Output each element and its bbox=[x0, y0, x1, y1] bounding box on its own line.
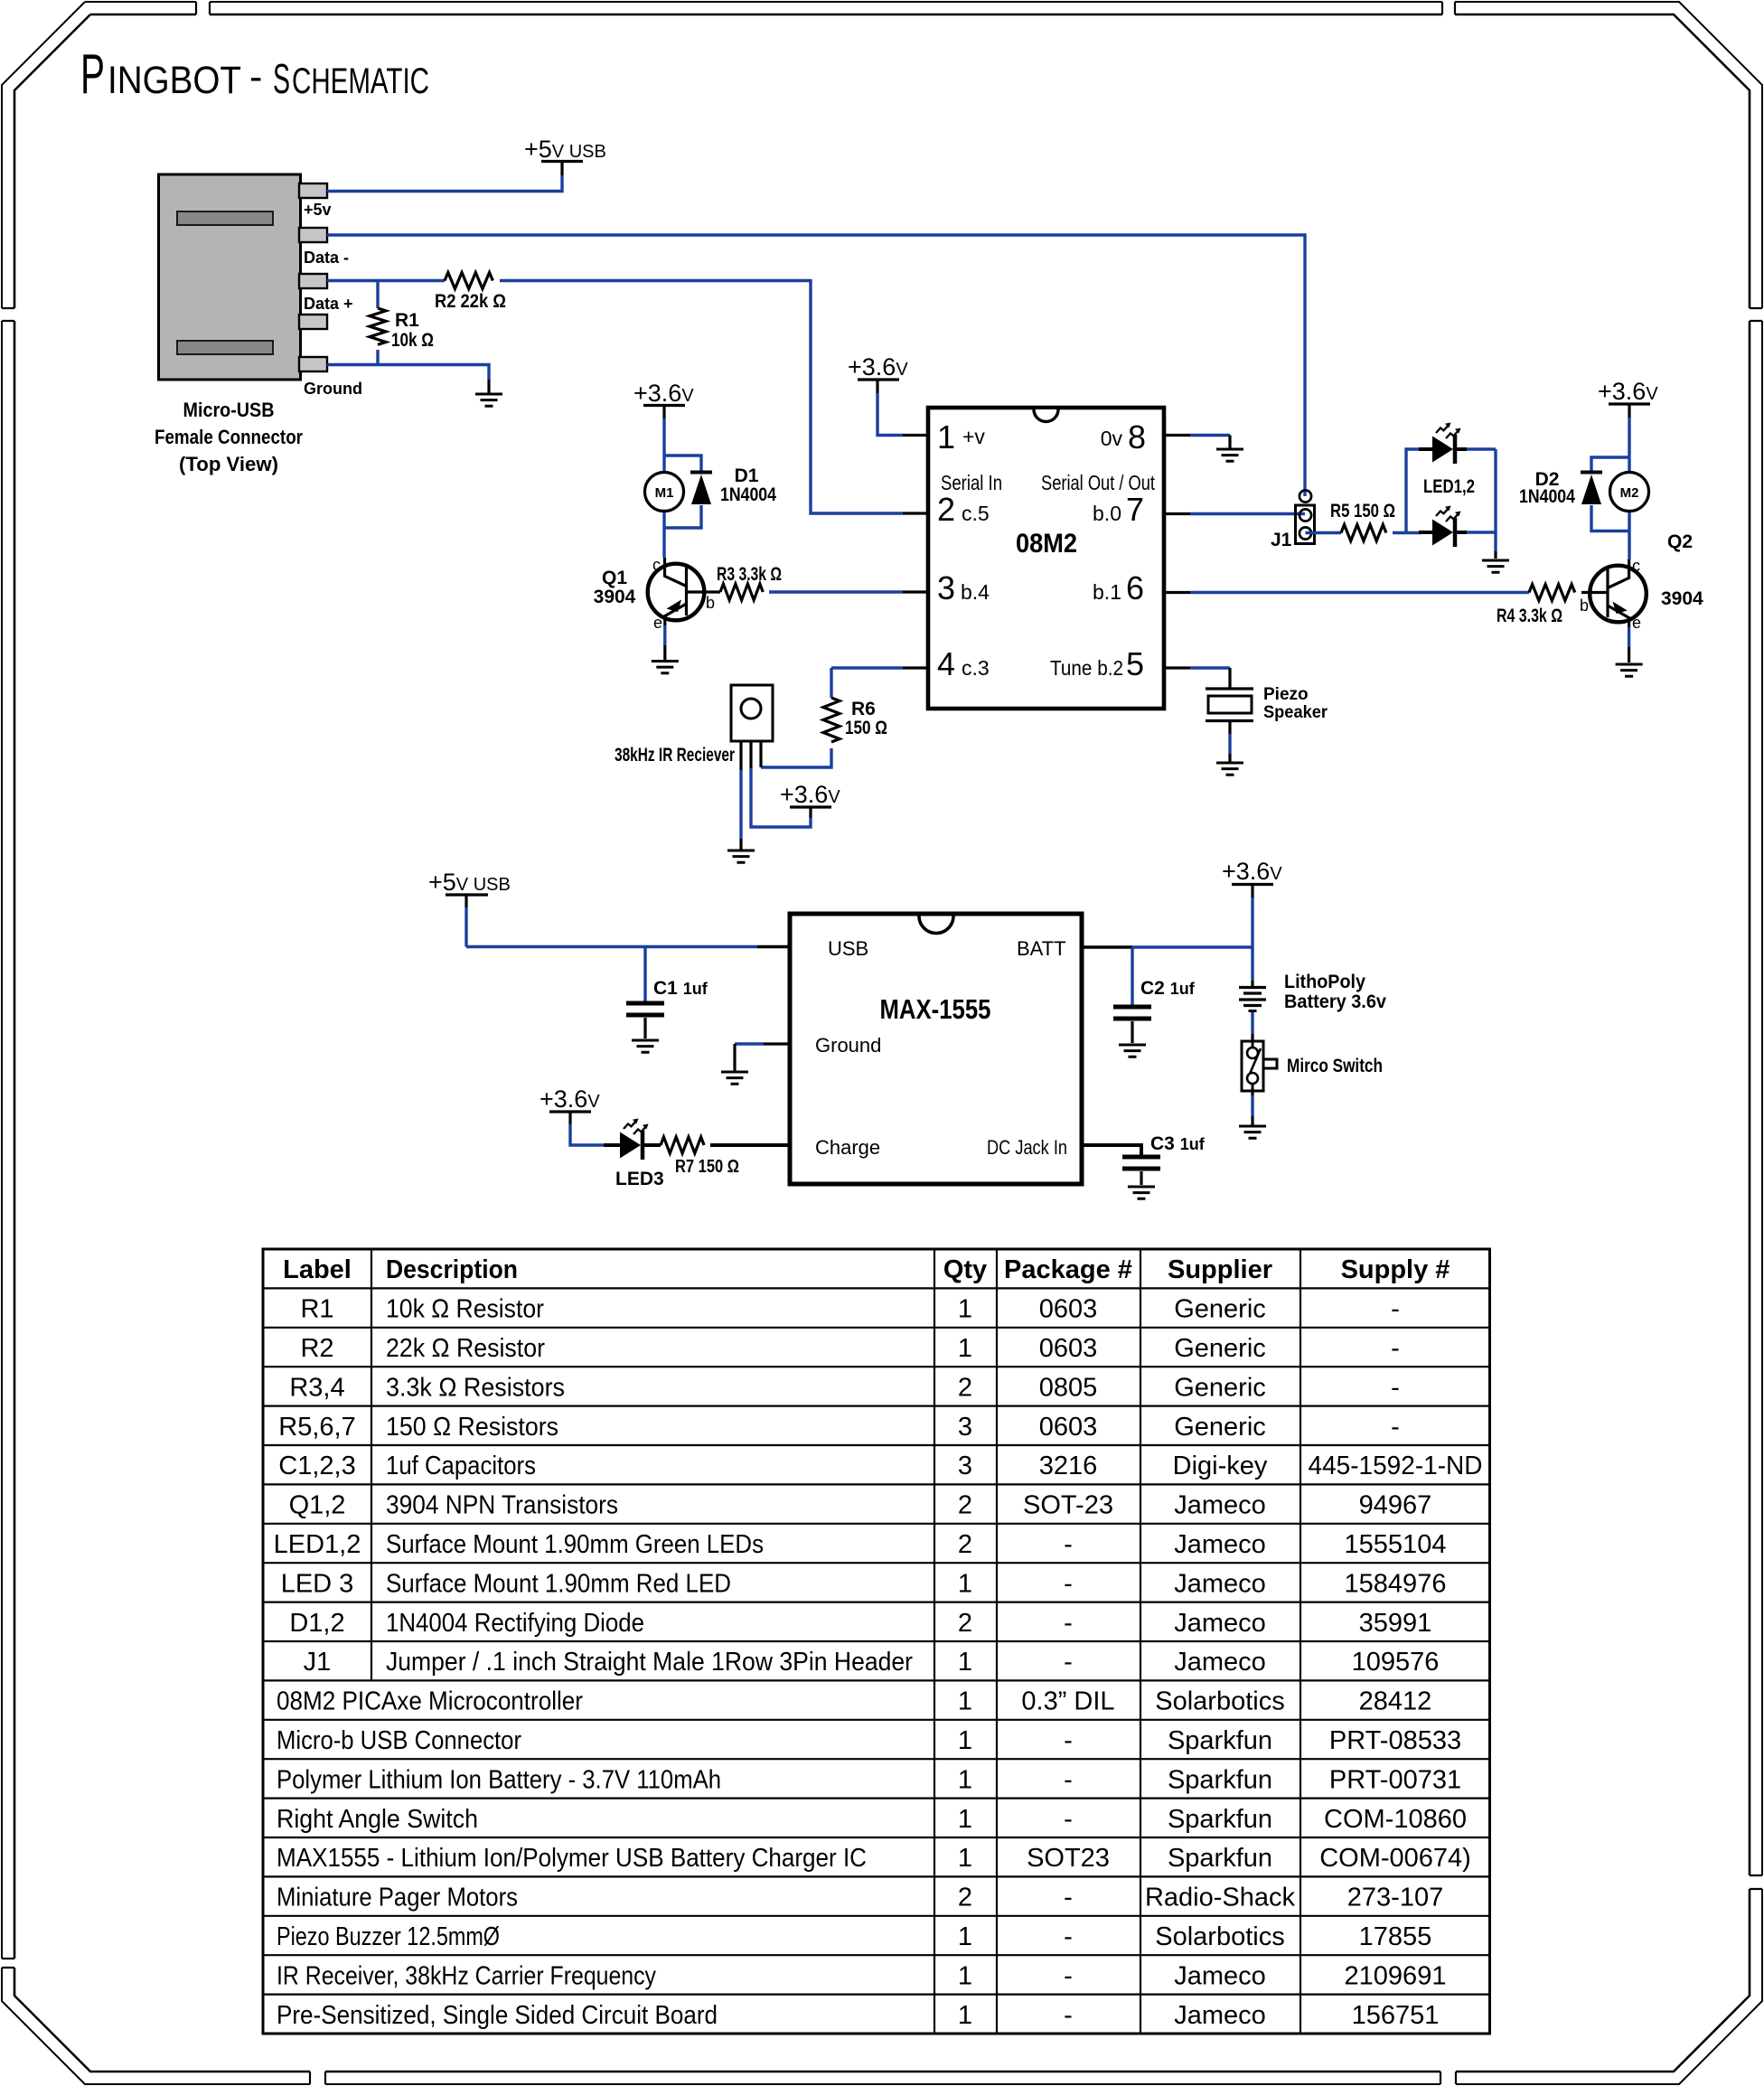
label Q2 3904 bbox=[1661, 531, 1703, 609]
svg-text:+3.6V: +3.6V bbox=[540, 1085, 600, 1113]
svg-text:b.1: b.1 bbox=[1093, 580, 1121, 604]
resistor R5 bbox=[1341, 525, 1386, 541]
svg-text:1N4004 Rectifying Diode: 1N4004 Rectifying Diode bbox=[386, 1609, 644, 1638]
label D2 1N4004 bbox=[1519, 469, 1575, 507]
svg-text:2: 2 bbox=[958, 1884, 972, 1912]
wire DC Jack In pin to C3 bbox=[1082, 1145, 1141, 1155]
svg-text:PRT-00731: PRT-00731 bbox=[1329, 1765, 1461, 1794]
wire R3 to pin3 bbox=[769, 590, 903, 593]
svg-text:150 Ω: 150 Ω bbox=[845, 718, 887, 738]
svg-text:Q1,2: Q1,2 bbox=[289, 1491, 346, 1520]
svg-text:R1: R1 bbox=[300, 1295, 333, 1324]
micro switch SW1 bbox=[1242, 1041, 1277, 1091]
resistor R3 bbox=[720, 584, 763, 600]
svg-text:2: 2 bbox=[958, 1609, 972, 1638]
wire IR leg3 bbox=[759, 741, 762, 767]
power +3.6V IR bbox=[780, 781, 840, 808]
svg-text:Miniature Pager Motors: Miniature Pager Motors bbox=[277, 1884, 518, 1912]
svg-text:R5,6,7: R5,6,7 bbox=[278, 1413, 355, 1442]
svg-text:1: 1 bbox=[958, 1726, 972, 1755]
table row: 1uf Capacitors bbox=[278, 1452, 1482, 1480]
svg-text:b: b bbox=[1580, 597, 1589, 615]
svg-text:-: - bbox=[1064, 1884, 1073, 1912]
svg-text:28412: 28412 bbox=[1359, 1687, 1432, 1716]
svg-text:LithoPoly: LithoPoly bbox=[1284, 972, 1365, 992]
svg-text:-: - bbox=[1064, 1805, 1073, 1834]
svg-text:Surface Mount 1.90mm Red LED: Surface Mount 1.90mm Red LED bbox=[386, 1569, 731, 1598]
svg-text:Q2: Q2 bbox=[1667, 531, 1693, 552]
connector caption Micro-USB Female Connector (Top View) bbox=[155, 399, 303, 475]
svg-text:+3.6V: +3.6V bbox=[1598, 378, 1658, 405]
wire +3.6V to LED3 bbox=[570, 1124, 604, 1145]
svg-text:Ground: Ground bbox=[304, 380, 362, 398]
power +3.6V LED3 bbox=[540, 1085, 600, 1124]
table row: Surface Mount 1.90mm Green LEDs bbox=[274, 1530, 1447, 1559]
svg-text:USB: USB bbox=[828, 937, 868, 960]
wire +3.6V to pin1 bbox=[877, 393, 903, 436]
svg-text:-: - bbox=[1391, 1334, 1400, 1363]
svg-text:1: 1 bbox=[958, 1922, 972, 1951]
wire BATT pin bbox=[1082, 945, 1132, 948]
svg-text:-: - bbox=[1064, 1609, 1073, 1638]
svg-text:17855: 17855 bbox=[1359, 1922, 1432, 1951]
ground under R1 bbox=[475, 394, 502, 406]
svg-text:Piezo: Piezo bbox=[1263, 685, 1309, 704]
svg-text:+5V USB: +5V USB bbox=[428, 869, 511, 896]
svg-text:MAX1555 - Lithium Ion/Polymer: MAX1555 - Lithium Ion/Polymer USB Batter… bbox=[277, 1844, 867, 1873]
svg-text:Package #: Package # bbox=[1004, 1255, 1132, 1284]
IR receiver bbox=[731, 685, 773, 741]
svg-text:1: 1 bbox=[958, 1648, 972, 1677]
svg-text:Piezo Buzzer 12.5mmØ: Piezo Buzzer 12.5mmØ bbox=[277, 1922, 500, 1951]
capacitor C2 bbox=[1113, 1007, 1151, 1019]
svg-text:b.4: b.4 bbox=[961, 580, 990, 604]
table row: Polymer Lithium Ion Battery - 3.7V 110mA bbox=[277, 1765, 1461, 1794]
svg-text:2109691: 2109691 bbox=[1345, 1961, 1447, 1990]
svg-text:INGBOT: INGBOT bbox=[108, 59, 241, 102]
svg-text:C2 1uf: C2 1uf bbox=[1140, 978, 1196, 999]
svg-text:P: P bbox=[80, 43, 105, 106]
svg-text:Generic: Generic bbox=[1174, 1295, 1266, 1324]
svg-text:Jumper / .1 inch Straight Male: Jumper / .1 inch Straight Male 1Row 3Pin… bbox=[386, 1648, 913, 1677]
wire R7 to Charge pin bbox=[710, 1143, 790, 1147]
resistor R2 bbox=[445, 273, 493, 289]
svg-text:SOT23: SOT23 bbox=[1027, 1844, 1110, 1873]
svg-text:10k Ω Resistor: 10k Ω Resistor bbox=[386, 1295, 544, 1324]
svg-text:3904 NPN Transistors: 3904 NPN Transistors bbox=[386, 1491, 618, 1520]
svg-text:3904: 3904 bbox=[594, 587, 636, 607]
parts table bbox=[263, 1249, 1490, 2034]
svg-text:IR Receiver, 38kHz Carrier Fre: IR Receiver, 38kHz Carrier Frequency bbox=[277, 1961, 656, 1990]
svg-text:3: 3 bbox=[958, 1413, 972, 1442]
svg-text:C1 1uf: C1 1uf bbox=[653, 978, 708, 999]
svg-text:-: - bbox=[1064, 1648, 1073, 1677]
table row: Right Angle Switch bbox=[277, 1805, 1467, 1834]
wire IR leg2 to +3.6V bbox=[749, 741, 752, 768]
wire C1 to ground bbox=[643, 1018, 646, 1038]
power +3.6V M1 bbox=[633, 380, 694, 418]
svg-text:1: 1 bbox=[958, 1765, 972, 1794]
wire +3.6V to M2 and D2 bbox=[1591, 418, 1629, 559]
svg-text:Solarbotics: Solarbotics bbox=[1155, 1922, 1284, 1951]
wire C3 to ground bbox=[1140, 1171, 1142, 1185]
svg-text:Charge: Charge bbox=[815, 1136, 880, 1159]
svg-text:Mirco Switch: Mirco Switch bbox=[1287, 1056, 1383, 1076]
svg-text:Jameco: Jameco bbox=[1174, 1491, 1266, 1520]
power +5V USB bbox=[524, 136, 606, 175]
resistor R6 bbox=[823, 698, 840, 742]
svg-text:S: S bbox=[273, 55, 290, 102]
svg-text:1: 1 bbox=[958, 1687, 972, 1716]
svg-text:M2: M2 bbox=[1620, 485, 1639, 501]
svg-text:+5v: +5v bbox=[304, 201, 332, 219]
svg-text:156751: 156751 bbox=[1352, 2001, 1440, 2030]
wire R1 branch bbox=[376, 281, 379, 367]
svg-text:1584976: 1584976 bbox=[1345, 1569, 1447, 1598]
wire Q2 emitter to ground bbox=[1628, 627, 1630, 647]
label D1 1N4004 bbox=[720, 465, 776, 505]
table row: 10k Ω Resistor bbox=[300, 1295, 1399, 1324]
svg-text:-: - bbox=[1391, 1413, 1400, 1442]
svg-text:Label: Label bbox=[283, 1255, 352, 1284]
svg-text:Polymer Lithium Ion Battery -: Polymer Lithium Ion Battery - 3.7V 110mA… bbox=[277, 1765, 721, 1794]
piezo speaker bbox=[1206, 689, 1253, 721]
svg-text:08M2: 08M2 bbox=[1016, 529, 1077, 559]
wire pin4 to R6 bbox=[903, 666, 928, 669]
svg-text:1: 1 bbox=[958, 2001, 972, 2030]
table row: 3904 NPN Transistors bbox=[289, 1491, 1432, 1520]
svg-text:R7 150 Ω: R7 150 Ω bbox=[675, 1157, 739, 1177]
svg-text:-: - bbox=[1064, 1765, 1073, 1794]
table row: 1N4004 Rectifying Diode bbox=[289, 1609, 1431, 1638]
diode D2 bbox=[1581, 473, 1602, 505]
svg-text:D1,2: D1,2 bbox=[289, 1609, 344, 1638]
svg-text:-: - bbox=[249, 55, 262, 99]
svg-text:2: 2 bbox=[958, 1530, 972, 1559]
ground MAX ground pin bbox=[721, 1072, 748, 1084]
ground C1 bbox=[632, 1040, 659, 1052]
motor M2 bbox=[1610, 473, 1649, 512]
svg-text:1: 1 bbox=[937, 418, 955, 456]
svg-text:J1: J1 bbox=[304, 1648, 332, 1677]
svg-text:D1: D1 bbox=[735, 465, 759, 486]
label Q1 3904 bbox=[594, 568, 636, 607]
svg-text:e: e bbox=[653, 614, 662, 632]
wire C2 to ground bbox=[1131, 1021, 1133, 1043]
ground C3 bbox=[1128, 1187, 1155, 1198]
svg-text:Right Angle Switch: Right Angle Switch bbox=[277, 1805, 478, 1834]
table row: 3.3k Ω Resistors bbox=[289, 1373, 1399, 1402]
wire pin6 to R4 bbox=[1164, 591, 1190, 594]
jumper J1 bbox=[1296, 490, 1315, 543]
svg-text:3216: 3216 bbox=[1039, 1452, 1098, 1480]
svg-text:-: - bbox=[1064, 1530, 1073, 1559]
svg-text:22k Ω Resistor: 22k Ω Resistor bbox=[386, 1334, 545, 1363]
connector USB body bbox=[159, 174, 328, 380]
power +5V USB (charger) bbox=[428, 869, 511, 907]
wire +5v pin to +5V USB bbox=[327, 175, 562, 192]
svg-text:Jameco: Jameco bbox=[1174, 1569, 1266, 1598]
svg-text:+3.6V: +3.6V bbox=[633, 380, 694, 407]
label R6 150 bbox=[845, 699, 887, 738]
svg-text:e: e bbox=[1632, 614, 1641, 632]
wire pin7 to J1 bbox=[1164, 512, 1190, 515]
svg-text:1: 1 bbox=[958, 1805, 972, 1834]
wire Data+ to R2 and pin2 bbox=[327, 281, 903, 514]
svg-text:R3,4: R3,4 bbox=[289, 1373, 344, 1402]
svg-text:Solarbotics: Solarbotics bbox=[1155, 1687, 1284, 1716]
svg-text:Radio-Shack: Radio-Shack bbox=[1145, 1884, 1296, 1912]
svg-text:COM-00674): COM-00674) bbox=[1319, 1844, 1471, 1873]
svg-text:Digi-key: Digi-key bbox=[1173, 1452, 1268, 1480]
svg-text:DC Jack In: DC Jack In bbox=[987, 1136, 1067, 1159]
svg-text:R3 3.3k Ω: R3 3.3k Ω bbox=[717, 564, 782, 585]
svg-text:+3.6V: +3.6V bbox=[848, 353, 908, 381]
power +3.6V M2 bbox=[1598, 378, 1658, 418]
svg-text:Generic: Generic bbox=[1174, 1334, 1266, 1363]
svg-text:5: 5 bbox=[1126, 645, 1144, 682]
svg-text:Generic: Generic bbox=[1174, 1373, 1266, 1402]
svg-text:-: - bbox=[1064, 1726, 1073, 1755]
svg-text:Pre-Sensitized, Single Sided C: Pre-Sensitized, Single Sided Circuit Boa… bbox=[277, 2001, 718, 2030]
svg-text:2: 2 bbox=[958, 1373, 972, 1402]
power +3.6V pin1 bbox=[848, 353, 908, 393]
svg-text:0805: 0805 bbox=[1039, 1373, 1098, 1402]
LED3 bbox=[604, 1119, 661, 1160]
wire J1 to R5 bbox=[1306, 531, 1342, 534]
ground Q2 emitter bbox=[1616, 664, 1643, 676]
wire Ground pin bbox=[764, 1042, 790, 1045]
svg-text:1: 1 bbox=[958, 1334, 972, 1363]
ground LED rail bbox=[1482, 560, 1509, 572]
svg-text:1: 1 bbox=[958, 1961, 972, 1990]
svg-text:3: 3 bbox=[937, 569, 955, 606]
svg-text:Jameco: Jameco bbox=[1174, 1648, 1266, 1677]
ground IR bbox=[727, 850, 755, 862]
svg-text:1N4004: 1N4004 bbox=[1519, 486, 1575, 507]
svg-text:35991: 35991 bbox=[1359, 1609, 1432, 1638]
svg-text:Data +: Data + bbox=[304, 295, 353, 313]
ground pin8 bbox=[1216, 449, 1243, 461]
svg-text:Supply #: Supply # bbox=[1341, 1255, 1450, 1284]
wire pin5 to piezo bbox=[1164, 666, 1190, 669]
svg-text:1N4004: 1N4004 bbox=[720, 484, 776, 505]
table row: MAX1555 - Lithium Ion/Polymer USB Batter bbox=[277, 1844, 1471, 1873]
svg-text:-: - bbox=[1064, 1922, 1073, 1951]
svg-text:LED 3: LED 3 bbox=[281, 1569, 354, 1598]
svg-text:Q1: Q1 bbox=[602, 568, 627, 588]
table row: Micro-b USB Connector bbox=[277, 1726, 1461, 1755]
capacitor C1 bbox=[626, 1003, 664, 1015]
transistor Q1 bbox=[648, 558, 720, 625]
svg-text:CHEMATIC: CHEMATIC bbox=[292, 61, 429, 101]
resistor R7 bbox=[661, 1137, 704, 1153]
wire switch to ground bbox=[1251, 1091, 1253, 1095]
svg-text:R2 22k Ω: R2 22k Ω bbox=[435, 291, 506, 312]
svg-text:273-107: 273-107 bbox=[1347, 1884, 1443, 1912]
svg-text:LED3: LED3 bbox=[615, 1169, 664, 1189]
wire battery to switch bbox=[1251, 1012, 1253, 1034]
svg-text:Qty: Qty bbox=[943, 1255, 987, 1284]
svg-text:MAX-1555: MAX-1555 bbox=[880, 993, 991, 1025]
wire C1 branch bbox=[643, 947, 646, 1002]
svg-text:R4 3.3k Ω: R4 3.3k Ω bbox=[1497, 606, 1562, 626]
svg-text:10k Ω: 10k Ω bbox=[391, 330, 434, 351]
label R1 10k bbox=[391, 310, 434, 351]
svg-text:R6: R6 bbox=[851, 699, 876, 719]
svg-text:M1: M1 bbox=[655, 485, 674, 501]
svg-text:109576: 109576 bbox=[1352, 1648, 1440, 1677]
svg-text:0.3” DIL: 0.3” DIL bbox=[1021, 1687, 1114, 1716]
resistor R4 bbox=[1529, 585, 1575, 601]
svg-text:2: 2 bbox=[937, 491, 955, 528]
svg-text:8: 8 bbox=[1128, 418, 1146, 456]
wire C2 branch bbox=[1131, 947, 1133, 1005]
wire pin8 to ground bbox=[1164, 434, 1190, 437]
svg-text:R1: R1 bbox=[395, 310, 419, 331]
wire R5 to LED rails bbox=[1393, 449, 1496, 551]
svg-text:R5 150 Ω: R5 150 Ω bbox=[1330, 501, 1395, 521]
svg-text:Sparkfun: Sparkfun bbox=[1168, 1765, 1272, 1794]
battery BT1 bbox=[1239, 988, 1266, 1011]
svg-text:Sparkfun: Sparkfun bbox=[1168, 1844, 1272, 1873]
svg-text:Generic: Generic bbox=[1174, 1413, 1266, 1442]
wire Data- to J1 bbox=[327, 235, 1305, 496]
svg-text:Supplier: Supplier bbox=[1168, 1255, 1272, 1284]
wire +3.6V to battery bbox=[1251, 897, 1253, 981]
svg-text:c.5: c.5 bbox=[962, 502, 990, 525]
svg-text:-: - bbox=[1064, 2001, 1073, 2030]
svg-text:2: 2 bbox=[958, 1491, 972, 1520]
table row: Surface Mount 1.90mm Red LED bbox=[281, 1569, 1447, 1598]
transistor Q2 bbox=[1590, 559, 1647, 627]
table row: 22k Ω Resistor bbox=[300, 1334, 1399, 1363]
svg-text:+3.6V: +3.6V bbox=[780, 781, 840, 808]
svg-text:4: 4 bbox=[937, 645, 955, 682]
svg-text:COM-10860: COM-10860 bbox=[1324, 1805, 1467, 1834]
svg-text:94967: 94967 bbox=[1359, 1491, 1432, 1520]
resistor R1 bbox=[370, 308, 386, 344]
IC U1 08M2 bbox=[928, 408, 1164, 709]
svg-text:38kHz IR Reciever: 38kHz IR Reciever bbox=[615, 745, 735, 766]
svg-text:c.3: c.3 bbox=[962, 656, 990, 680]
wire Ground pin bbox=[327, 365, 489, 381]
table row: Miniature Pager Motors bbox=[277, 1884, 1443, 1912]
svg-text:C3 1uf: C3 1uf bbox=[1150, 1133, 1206, 1154]
svg-text:Ground: Ground bbox=[815, 1034, 881, 1057]
svg-text:1: 1 bbox=[958, 1569, 972, 1598]
wire +3.6V to M1 and D1 bbox=[664, 418, 701, 558]
motor M1 bbox=[645, 473, 684, 512]
svg-text:+v: +v bbox=[962, 425, 985, 448]
svg-text:1: 1 bbox=[958, 1295, 972, 1324]
LED2 bbox=[1419, 506, 1467, 548]
svg-text:Speaker: Speaker bbox=[1263, 703, 1328, 722]
svg-text:-: - bbox=[1064, 1961, 1073, 1990]
svg-text:b: b bbox=[706, 594, 715, 612]
svg-text:3.3k Ω Resistors: 3.3k Ω Resistors bbox=[386, 1373, 565, 1402]
table row: 150 Ω Resistors bbox=[278, 1413, 1400, 1442]
svg-text:c: c bbox=[1632, 557, 1640, 575]
table row: IR Receiver, 38kHz Carrier Frequency bbox=[277, 1961, 1446, 1990]
table row: Pre-Sensitized, Single Sided Circuit Boa bbox=[277, 2001, 1439, 2030]
svg-text:Micro-b USB Connector: Micro-b USB Connector bbox=[277, 1726, 521, 1755]
svg-text:Female Connector: Female Connector bbox=[155, 426, 303, 448]
svg-text:Jameco: Jameco bbox=[1174, 1530, 1266, 1559]
label LithoPoly Battery 3.6v bbox=[1284, 972, 1386, 1012]
svg-text:Sparkfun: Sparkfun bbox=[1168, 1805, 1272, 1834]
svg-text:Description: Description bbox=[386, 1255, 518, 1284]
svg-text:PRT-08533: PRT-08533 bbox=[1329, 1726, 1461, 1755]
wire piezo to ground bbox=[1228, 721, 1231, 735]
svg-text:(Top View): (Top View) bbox=[179, 453, 278, 475]
svg-text:Tune b.2: Tune b.2 bbox=[1050, 656, 1123, 680]
wire R4 to Q2 base bbox=[1581, 591, 1608, 594]
wire IR leg1 to ground bbox=[739, 741, 742, 770]
svg-text:0v: 0v bbox=[1101, 427, 1123, 450]
svg-text:Jameco: Jameco bbox=[1174, 2001, 1266, 2030]
capacitor C3 bbox=[1122, 1157, 1160, 1169]
svg-text:-: - bbox=[1391, 1373, 1400, 1402]
svg-text:1555104: 1555104 bbox=[1345, 1530, 1447, 1559]
wire rail to ground bbox=[1494, 551, 1497, 559]
svg-text:08M2 PICAxe Microcontroller: 08M2 PICAxe Microcontroller bbox=[277, 1687, 583, 1716]
wire Q1 emitter bbox=[663, 625, 666, 645]
svg-text:+3.6V: +3.6V bbox=[1222, 858, 1282, 885]
ground Q1 emitter bbox=[652, 662, 679, 673]
LED1 bbox=[1419, 423, 1467, 465]
svg-text:-: - bbox=[1064, 1569, 1073, 1598]
svg-text:Surface Mount 1.90mm Green LED: Surface Mount 1.90mm Green LEDs bbox=[386, 1530, 764, 1559]
svg-text:Jameco: Jameco bbox=[1174, 1961, 1266, 1990]
svg-text:SOT-23: SOT-23 bbox=[1023, 1491, 1113, 1520]
svg-text:J1: J1 bbox=[1271, 530, 1292, 550]
svg-text:6: 6 bbox=[1126, 569, 1144, 606]
ground switch bbox=[1239, 1126, 1266, 1138]
svg-text:7: 7 bbox=[1126, 491, 1144, 528]
label Piezo Speaker bbox=[1263, 685, 1328, 722]
svg-text:+5V USB: +5V USB bbox=[524, 136, 606, 163]
svg-text:150 Ω Resistors: 150 Ω Resistors bbox=[386, 1413, 558, 1442]
svg-text:LED1,2: LED1,2 bbox=[274, 1530, 361, 1559]
svg-text:BATT: BATT bbox=[1017, 937, 1066, 960]
svg-text:3904: 3904 bbox=[1661, 588, 1703, 609]
svg-text:3: 3 bbox=[958, 1452, 972, 1480]
svg-text:-: - bbox=[1391, 1295, 1400, 1324]
svg-text:R2: R2 bbox=[300, 1334, 333, 1363]
svg-text:Battery 3.6v: Battery 3.6v bbox=[1284, 991, 1386, 1012]
svg-text:0603: 0603 bbox=[1039, 1413, 1098, 1442]
svg-text:0603: 0603 bbox=[1039, 1334, 1098, 1363]
svg-text:C1,2,3: C1,2,3 bbox=[278, 1452, 355, 1480]
table row: Description bbox=[283, 1255, 1450, 1284]
power +3.6V battery bbox=[1222, 858, 1282, 897]
svg-text:0603: 0603 bbox=[1039, 1295, 1098, 1324]
svg-text:Sparkfun: Sparkfun bbox=[1168, 1726, 1272, 1755]
svg-text:LED1,2: LED1,2 bbox=[1423, 476, 1475, 497]
IC U2 MAX-1555 bbox=[790, 914, 1082, 1184]
svg-text:Jameco: Jameco bbox=[1174, 1609, 1266, 1638]
ground piezo bbox=[1216, 763, 1243, 775]
svg-text:Micro-USB: Micro-USB bbox=[183, 399, 275, 421]
svg-text:1uf Capacitors: 1uf Capacitors bbox=[386, 1452, 536, 1480]
svg-text:445-1592-1-ND: 445-1592-1-ND bbox=[1309, 1452, 1483, 1480]
ground C2 bbox=[1119, 1045, 1146, 1057]
svg-text:b.0: b.0 bbox=[1093, 502, 1121, 525]
svg-text:c: c bbox=[652, 556, 661, 574]
title PINGBOT - SCHEMATIC bbox=[80, 43, 429, 106]
diode D1 bbox=[690, 473, 712, 505]
